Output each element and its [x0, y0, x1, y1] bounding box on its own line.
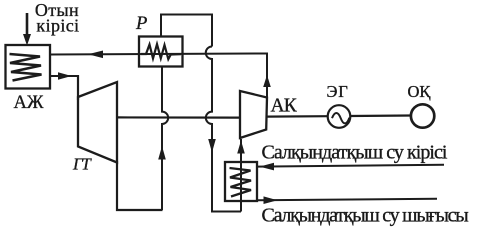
Р coil zigzag (resistor style) [141, 44, 181, 59]
cooler coil zigzag [230, 168, 252, 197]
wire: turbine inlet drop [77, 75, 79, 100]
wire: regenerator to АЖ air line [50, 54, 267, 55]
turbine ГТ body [78, 82, 117, 163]
arrowhead up on discharge riser [263, 75, 271, 87]
exciter ОҚ circle [411, 104, 434, 127]
arrowhead up on exhaust riser [158, 146, 166, 160]
cooling water inlet line [258, 165, 445, 167]
wire: АЖ to turbine inlet [50, 75, 78, 77]
arrowhead down on downcomer [208, 139, 216, 153]
compressor АК body [240, 91, 267, 138]
regenerator Р box [139, 37, 183, 67]
heat exchanger АЖ (air heater / combustor) box [6, 45, 51, 89]
wire: regenerator top loop to downcomer [161, 15, 212, 47]
shaft: generator to ОҚ [350, 114, 411, 117]
svg-text:Салқындатқыш су шығысы: Салқындатқыш су шығысы [262, 205, 469, 227]
arrowhead toward АЖ (left) [88, 51, 103, 59]
wire: exhaust riser to regenerator (hop over shaft) [162, 66, 168, 210]
fuel inlet arrow into АЖ [23, 13, 31, 46]
wire: compressor discharge riser [266, 53, 268, 98]
shaft: compressor to generator [267, 115, 328, 118]
АЖ coil zigzag [10, 54, 42, 81]
arrowhead right out of cooler [264, 196, 278, 204]
svg-text:Салқындатқыш су кірісі: Салқындатқыш су кірісі [262, 142, 448, 164]
cooler (салқындатқыш) box [225, 162, 257, 201]
generator ЭГ circle [328, 105, 351, 128]
wire: turbine exhaust down and right [117, 161, 163, 210]
cooling water outlet line [258, 199, 438, 201]
arrowhead up into compressor [237, 141, 245, 154]
svg-text:АК: АК [271, 96, 298, 117]
svg-text:АЖ: АЖ [14, 93, 44, 113]
label: fuel inlet "Отын кірісі" [35, 0, 80, 36]
svg-text:кірісі: кірісі [36, 16, 79, 36]
svg-text:Р: Р [135, 14, 147, 34]
arrowhead into turbine (right) [58, 72, 72, 80]
generator sine symbol [332, 113, 349, 123]
wire: downcomer with hops over air line and shaft [206, 47, 241, 212]
shaft: turbine to compressor [117, 116, 240, 118]
arrowhead left into cooler [260, 163, 275, 171]
svg-text:ЭГ: ЭГ [327, 82, 349, 101]
svg-text:ГТ: ГТ [72, 155, 92, 174]
svg-text:ОҚ: ОҚ [408, 82, 432, 101]
wire: cooler to compressor suction [240, 139, 242, 212]
